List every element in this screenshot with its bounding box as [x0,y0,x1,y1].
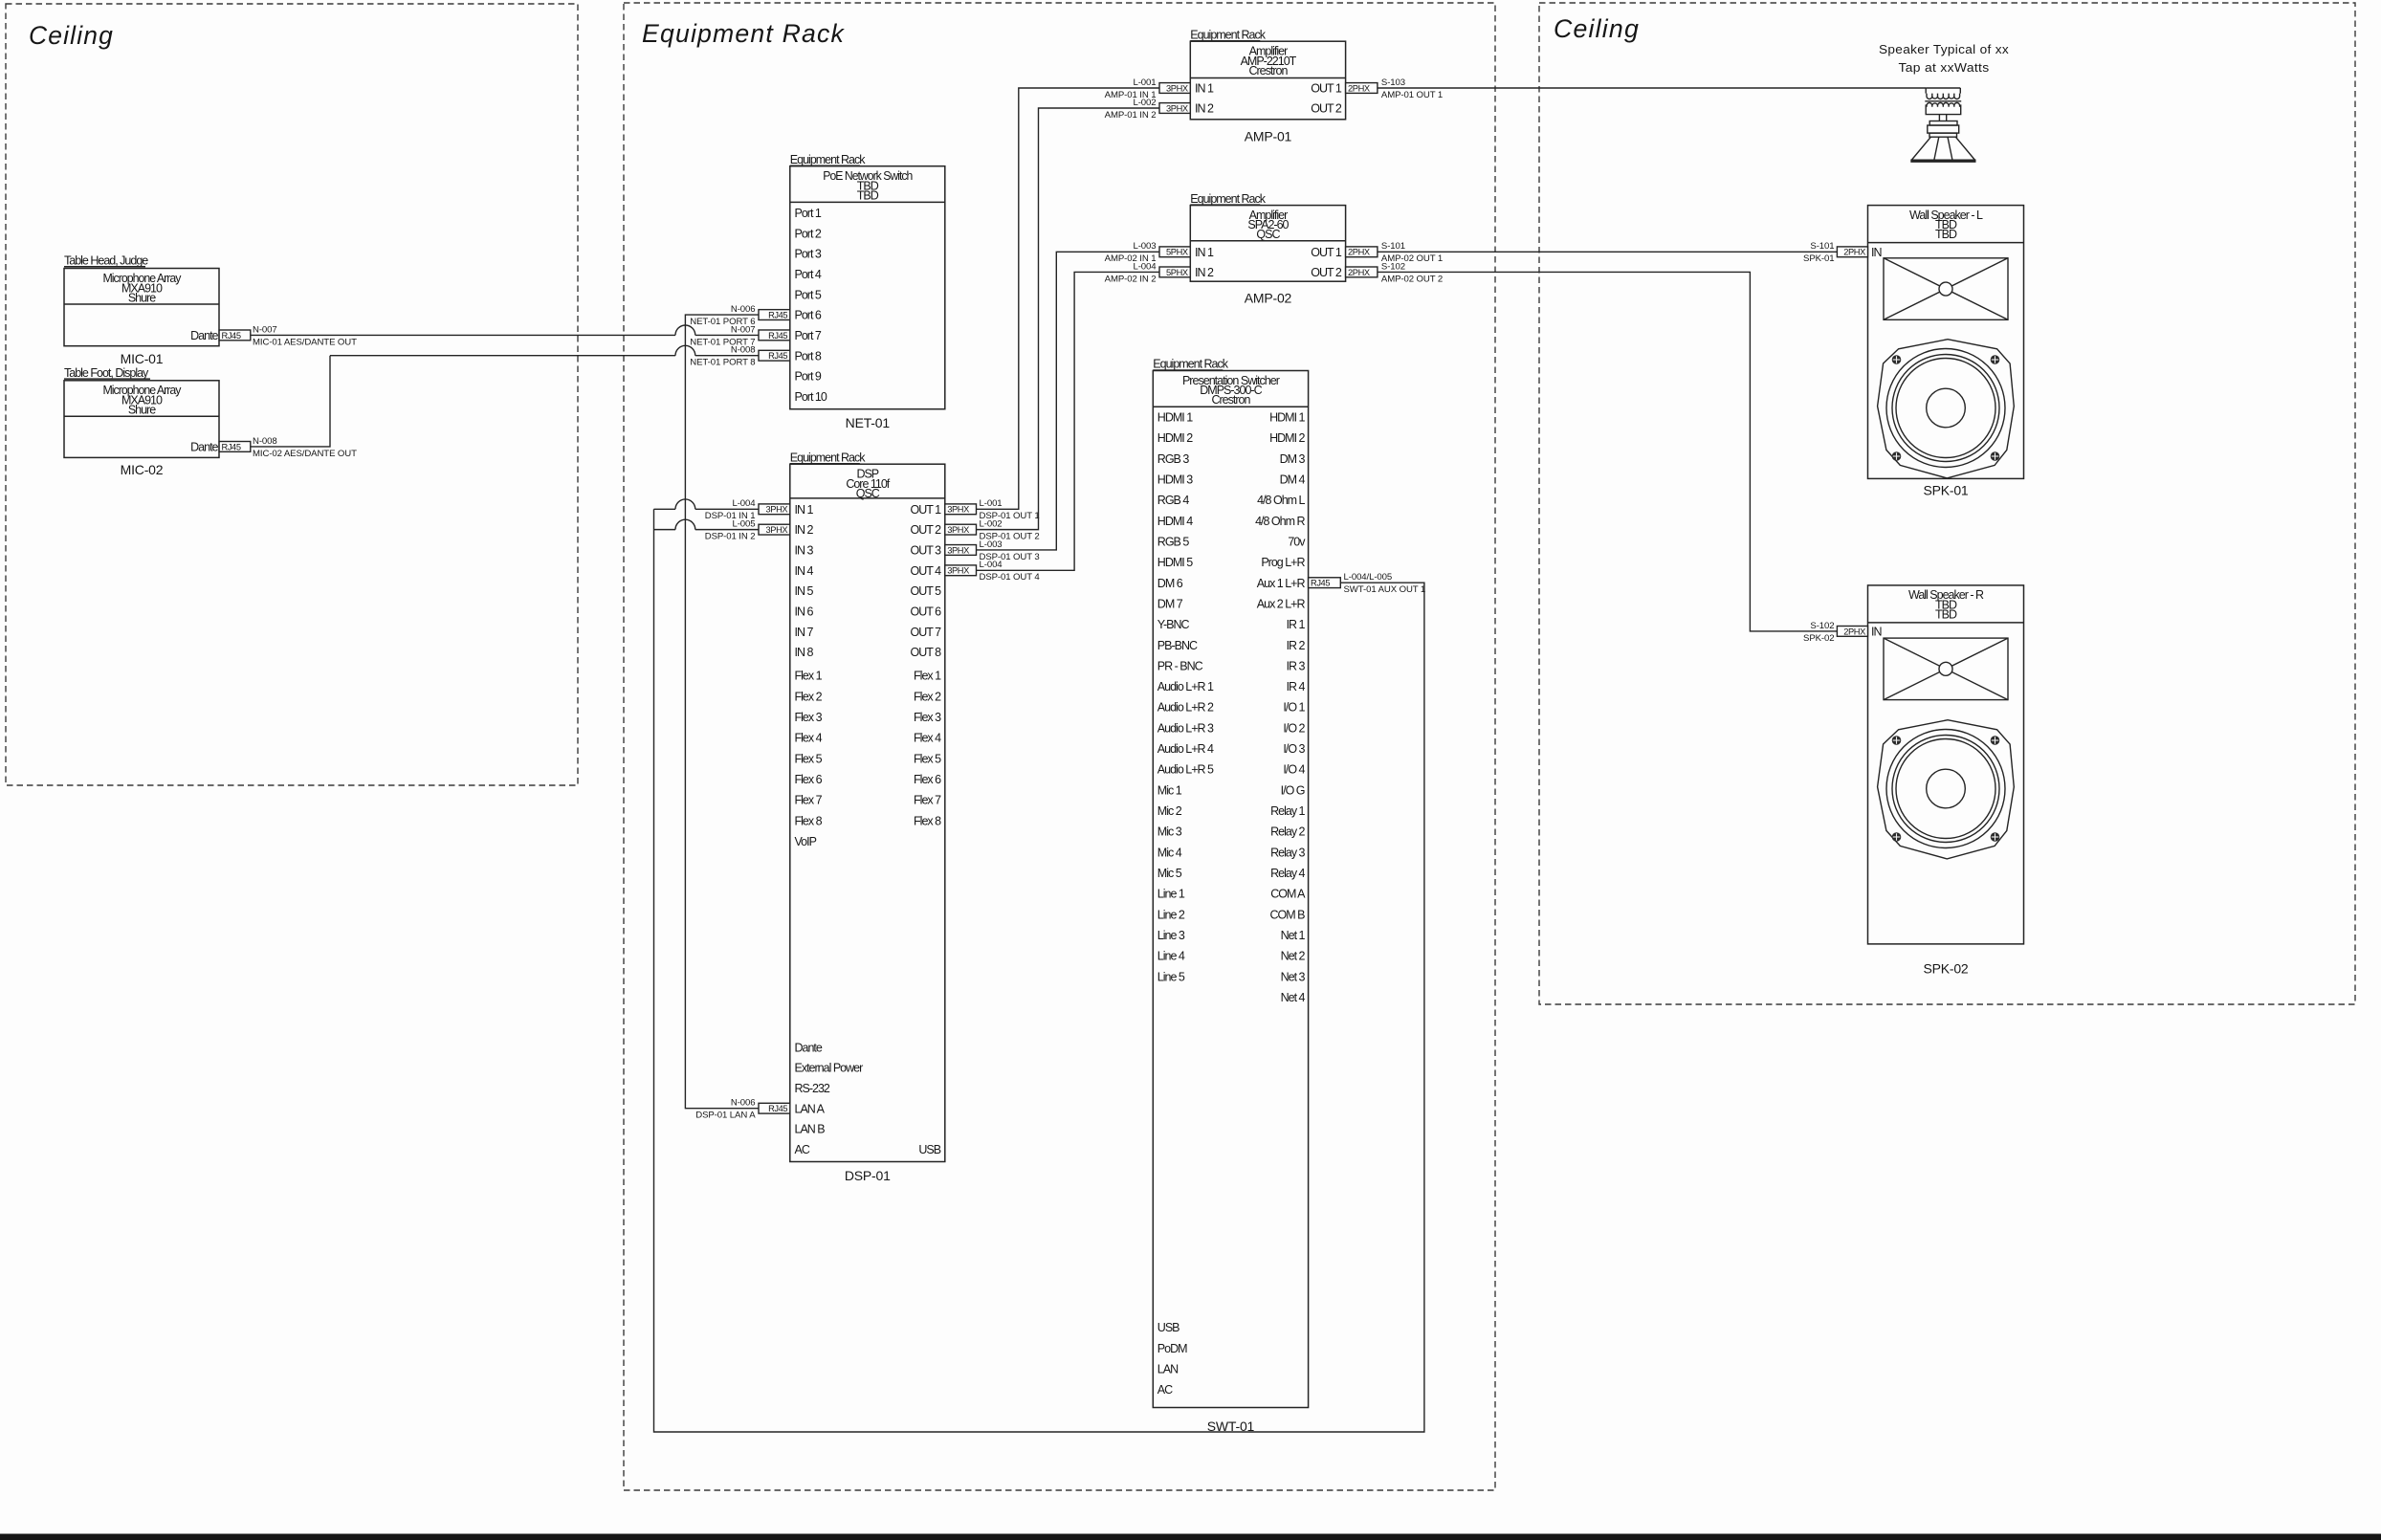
svg-text:Table Head, Judge: Table Head, Judge [64,254,148,268]
svg-text:S-102: S-102 [1810,621,1834,631]
svg-text:Relay 2: Relay 2 [1270,825,1305,839]
svg-text:L-004: L-004 [732,498,756,509]
svg-text:PoDM: PoDM [1157,1342,1187,1355]
svg-text:Flex 1: Flex 1 [914,670,941,683]
svg-text:Audio L+R 1: Audio L+R 1 [1157,680,1214,693]
svg-text:Line 4: Line 4 [1157,950,1185,963]
svg-text:2PHX: 2PHX [1348,83,1370,93]
svg-text:TBD: TBD [1935,228,1957,241]
wire L-003 : DSP-01 OUT 3 to AMP-02 IN 1 [977,252,1160,550]
svg-text:S-102: S-102 [1381,261,1405,272]
svg-text:RS-232: RS-232 [795,1082,830,1095]
svg-text:AMP-02 IN 2: AMP-02 IN 2 [1105,274,1157,284]
svg-text:3PHX: 3PHX [947,505,969,515]
wire L-004 : SWT-01 Aux to DSP-01 IN 1 (left segment) [654,499,760,509]
svg-text:DM 3: DM 3 [1280,452,1306,466]
wire S-101 : AMP-02 OUT 1 to SPK-01 [1378,251,1838,253]
svg-text:Flex 2: Flex 2 [914,690,941,703]
DSP-01 RJ45 connector LAN A [759,1103,790,1113]
svg-text:L-003: L-003 [980,539,1003,550]
svg-text:OUT 7: OUT 7 [911,626,942,639]
svg-text:IN 8: IN 8 [795,646,814,659]
wire N-008 : MIC-02 Dante to NET-01 Port 8 [251,356,330,447]
svg-text:IN: IN [1871,246,1882,259]
svg-text:AC: AC [1157,1383,1173,1397]
svg-text:Flex 5: Flex 5 [914,752,941,765]
svg-text:Mic 5: Mic 5 [1157,867,1182,880]
svg-text:LAN B: LAN B [795,1123,826,1136]
DSP-01 3PHX connector OUT 3 [945,545,977,556]
NET-01 RJ45 connector Port 8 [759,350,790,361]
wire S-103 : AMP-01 OUT 1 to ceiling speaker [1378,87,1926,89]
svg-text:IN: IN [1871,626,1882,639]
wire S-102 : AMP-02 OUT 2 to SPK-02 [1378,272,1838,631]
svg-text:4/8 Ohm R: 4/8 Ohm R [1255,515,1305,528]
zone frame: Equipment Rack [624,3,1495,1490]
svg-text:Flex 6: Flex 6 [914,773,941,786]
svg-text:HDMI 2: HDMI 2 [1269,431,1305,445]
svg-text:Relay 4: Relay 4 [1270,867,1305,880]
svg-text:Flex 3: Flex 3 [914,711,941,724]
SPK-02 2PHX connector IN [1837,627,1867,637]
AMP-02 2PHX connector OUT 2 [1346,267,1378,277]
svg-text:S-103: S-103 [1381,77,1405,88]
svg-text:Flex 5: Flex 5 [795,752,823,765]
svg-text:Flex 6: Flex 6 [795,773,823,786]
svg-text:SPK-01: SPK-01 [1803,253,1834,264]
svg-text:AMP-01: AMP-01 [1245,129,1292,144]
svg-text:Mic 3: Mic 3 [1157,825,1182,839]
svg-text:Shure: Shure [128,403,156,416]
svg-text:IR 1: IR 1 [1287,618,1306,631]
NET-01 RJ45 connector Port 6 [759,310,790,320]
svg-text:IN 2: IN 2 [1195,102,1214,116]
svg-text:70v: 70v [1288,535,1306,548]
svg-text:L-001: L-001 [980,498,1003,509]
svg-text:Net 3: Net 3 [1281,970,1306,983]
DSP-01 3PHX connector OUT 1 [945,504,977,515]
svg-text:USB: USB [1157,1321,1179,1334]
svg-text:Shure: Shure [128,291,156,304]
svg-text:MIC-01: MIC-01 [121,351,164,366]
svg-text:Table Foot, Display: Table Foot, Display [64,366,149,380]
svg-text:Prog L+R: Prog L+R [1261,556,1305,569]
svg-text:Flex 2: Flex 2 [795,690,823,703]
svg-text:3PHX: 3PHX [947,525,969,535]
svg-text:MIC-02: MIC-02 [121,462,164,477]
svg-text:IN 2: IN 2 [1195,266,1214,279]
zone frame: Ceiling (right) [1539,3,2355,1004]
wall speaker SPK-02 box [1868,585,2024,944]
DSP-01 3PHX connector IN 1 [759,504,790,515]
AMP-01 3PHX connector IN 1 [1159,83,1190,94]
svg-text:Net 1: Net 1 [1281,929,1306,942]
svg-text:Flex 4: Flex 4 [914,732,941,745]
svg-text:Flex 1: Flex 1 [795,670,823,683]
svg-text:HDMI 5: HDMI 5 [1157,556,1193,569]
SPK-01 2PHX connector IN [1837,247,1867,257]
svg-text:Mic 2: Mic 2 [1157,804,1182,818]
svg-text:Net 4: Net 4 [1281,991,1306,1004]
svg-text:3PHX: 3PHX [1166,83,1188,93]
SPK-02 woofer [1878,720,2015,859]
svg-text:2PHX: 2PHX [1348,268,1370,277]
svg-text:Port 4: Port 4 [795,268,822,281]
svg-text:Audio L+R 3: Audio L+R 3 [1157,721,1214,735]
svg-text:QSC: QSC [856,487,880,500]
svg-text:RJ45: RJ45 [222,331,241,341]
svg-text:Flex 7: Flex 7 [795,794,823,807]
wall speaker SPK-01 box [1868,206,2024,479]
DSP Core 110f DSP-01 box [790,464,945,1161]
svg-text:HDMI 1: HDMI 1 [1269,411,1305,425]
svg-text:Relay 1: Relay 1 [1270,804,1305,818]
svg-text:IN 1: IN 1 [1195,246,1214,259]
svg-text:N-006: N-006 [731,304,756,315]
svg-text:RJ45: RJ45 [1311,579,1330,588]
svg-text:2PHX: 2PHX [1348,248,1370,257]
svg-text:L-002: L-002 [1133,98,1156,108]
amplifier AMP-01 box [1190,41,1345,120]
svg-text:RGB 4: RGB 4 [1157,494,1190,507]
wire N-007 : MIC-01 Dante to NET-01 Port 7 [251,325,759,335]
svg-text:Mic 1: Mic 1 [1157,783,1182,797]
svg-text:I/O 1: I/O 1 [1283,701,1305,715]
svg-text:Dante: Dante [190,441,218,454]
SPK-01 tweeter (horn with X) [1884,258,2008,320]
svg-text:IR 2: IR 2 [1287,639,1306,652]
svg-text:HDMI 4: HDMI 4 [1157,515,1193,528]
svg-text:HDMI 1: HDMI 1 [1157,411,1193,425]
svg-text:NET-01 PORT 8: NET-01 PORT 8 [690,358,755,368]
wire L-001 : DSP-01 OUT 1 to AMP-01 IN 1 [977,88,1160,509]
svg-text:OUT 6: OUT 6 [911,605,942,619]
PoE network switch NET-01 box [790,166,945,409]
svg-text:I/O 4: I/O 4 [1283,763,1305,777]
svg-text:Line 5: Line 5 [1157,970,1185,983]
svg-text:Port 2: Port 2 [795,227,822,240]
svg-text:Line 1: Line 1 [1157,888,1185,901]
wire L-004/L-005 : SWT-01 Aux Out 1 loop to DSP-01 IN 1/2 [654,509,1424,1432]
svg-text:OUT 2: OUT 2 [911,523,942,537]
svg-text:IN 2: IN 2 [795,523,814,537]
svg-text:3PHX: 3PHX [766,505,788,515]
svg-text:Flex 3: Flex 3 [795,711,823,724]
svg-text:Dante: Dante [190,329,218,342]
svg-text:L-002: L-002 [980,519,1003,530]
svg-text:DM 6: DM 6 [1157,577,1183,590]
svg-text:IN 7: IN 7 [795,626,814,639]
svg-text:5PHX: 5PHX [1166,248,1188,257]
SWT-01 RJ45 connector Aux 1 L+R [1309,578,1341,588]
svg-text:IN 1: IN 1 [795,503,814,517]
svg-text:AMP-01 IN 2: AMP-01 IN 2 [1105,110,1157,121]
svg-text:L-003: L-003 [1133,241,1156,252]
svg-text:Speaker Typical of xx: Speaker Typical of xx [1879,43,2009,56]
svg-text:Audio L+R 4: Audio L+R 4 [1157,742,1214,756]
svg-text:3PHX: 3PHX [947,566,969,576]
svg-text:Equipment Rack: Equipment Rack [1153,358,1228,371]
svg-text:Port 8: Port 8 [795,349,822,363]
ceiling speaker symbol with transformer [1926,88,1960,94]
AMP-02 2PHX connector OUT 1 [1346,247,1378,257]
svg-text:I/O 3: I/O 3 [1283,742,1305,756]
svg-text:AMP-02: AMP-02 [1245,291,1292,306]
svg-text:IR 4: IR 4 [1287,680,1306,693]
svg-text:Port 1: Port 1 [795,207,822,220]
svg-text:Crestron: Crestron [1211,393,1250,407]
svg-text:Aux 2 L+R: Aux 2 L+R [1257,597,1306,610]
svg-text:N-006: N-006 [731,1098,756,1109]
svg-text:AMP-02 OUT 2: AMP-02 OUT 2 [1381,274,1443,284]
svg-text:SPK-02: SPK-02 [1803,633,1834,644]
svg-text:DM 4: DM 4 [1280,473,1306,486]
svg-text:Port 7: Port 7 [795,329,822,342]
bottom title-block bar [0,1534,2381,1540]
svg-text:OUT 1: OUT 1 [1311,246,1342,259]
svg-text:Flex 7: Flex 7 [914,794,941,807]
svg-text:Audio L+R 5: Audio L+R 5 [1157,763,1214,777]
DSP-01 3PHX connector IN 2 [759,524,790,535]
svg-text:Tap at xxWatts: Tap at xxWatts [1899,61,1990,75]
svg-text:DSP-01 IN 2: DSP-01 IN 2 [705,532,756,542]
svg-text:RJ45: RJ45 [768,331,787,341]
microphone array MIC-01 box [64,269,219,346]
svg-text:HDMI 3: HDMI 3 [1157,473,1193,486]
svg-text:RJ45: RJ45 [222,442,241,451]
svg-text:Ceiling: Ceiling [29,21,114,50]
svg-text:Audio L+R 2: Audio L+R 2 [1157,701,1214,715]
svg-text:L-004: L-004 [1133,261,1157,272]
svg-text:OUT 3: OUT 3 [911,544,942,558]
svg-text:IN 4: IN 4 [795,564,814,578]
svg-text:SPK-01: SPK-01 [1923,482,1968,497]
svg-text:N-008: N-008 [731,345,756,356]
svg-text:SWT-01 AUX OUT 1: SWT-01 AUX OUT 1 [1344,584,1426,595]
svg-text:TBD: TBD [857,188,879,202]
svg-text:OUT 5: OUT 5 [911,584,942,598]
svg-text:Dante: Dante [795,1041,823,1054]
svg-text:OUT 8: OUT 8 [911,646,942,659]
svg-text:Port 3: Port 3 [795,248,822,261]
svg-text:NET-01: NET-01 [846,415,891,430]
svg-text:Relay 3: Relay 3 [1270,846,1305,859]
svg-text:2PHX: 2PHX [1843,248,1865,257]
svg-text:COM A: COM A [1270,888,1306,901]
svg-text:5PHX: 5PHX [1166,268,1188,277]
svg-text:Y-BNC: Y-BNC [1157,618,1190,631]
svg-text:S-101: S-101 [1381,241,1405,252]
svg-text:S-101: S-101 [1810,241,1834,252]
svg-text:RJ45: RJ45 [768,351,787,361]
svg-text:Equipment Rack: Equipment Rack [790,153,866,166]
svg-text:Mic 4: Mic 4 [1157,846,1182,859]
svg-text:DSP-01: DSP-01 [845,1168,891,1183]
svg-text:NET-01 PORT 6: NET-01 PORT 6 [690,317,755,327]
svg-text:N-007: N-007 [253,324,277,335]
wire N-006 : NET-01 Port 6 to DSP-01 LAN A [685,315,759,1109]
DSP-01 3PHX connector OUT 2 [945,524,977,535]
svg-text:I/O G: I/O G [1281,783,1305,797]
svg-text:RJ45: RJ45 [768,1104,787,1113]
svg-text:Flex 8: Flex 8 [795,814,823,827]
svg-text:Port 6: Port 6 [795,309,822,322]
svg-text:Net 2: Net 2 [1281,950,1306,963]
svg-text:Equipment Rack: Equipment Rack [1190,28,1266,41]
svg-text:Line 3: Line 3 [1157,929,1185,942]
DSP-01 3PHX connector OUT 4 [945,565,977,576]
wire L-002 : DSP-01 OUT 2 to AMP-01 IN 2 [977,108,1160,530]
AMP-02 5PHX connector IN 1 [1159,247,1190,257]
svg-text:Crestron: Crestron [1248,64,1288,77]
MIC-02 RJ45 connector [219,442,251,452]
SPK-02 tweeter (horn with X) [1884,638,2008,700]
svg-text:IN 6: IN 6 [795,605,814,619]
svg-text:I/O 2: I/O 2 [1283,721,1305,735]
svg-text:OUT 2: OUT 2 [1311,266,1342,279]
svg-text:OUT 1: OUT 1 [1311,82,1342,96]
svg-text:USB: USB [918,1143,940,1156]
svg-text:4/8 Ohm L: 4/8 Ohm L [1257,494,1305,507]
SPK-01 woofer [1878,340,2015,478]
svg-text:IN 5: IN 5 [795,584,814,598]
svg-text:MIC-02 AES/DANTE OUT: MIC-02 AES/DANTE OUT [253,449,357,459]
svg-text:Ceiling: Ceiling [1554,14,1640,43]
svg-text:2PHX: 2PHX [1843,627,1865,636]
svg-text:L-004: L-004 [980,560,1003,570]
microphone array MIC-02 box [64,381,219,458]
svg-text:Port 9: Port 9 [795,370,822,384]
svg-text:L-001: L-001 [1133,77,1156,88]
svg-text:PR - BNC: PR - BNC [1157,659,1203,672]
svg-text:IN 3: IN 3 [795,544,814,558]
svg-text:RGB 5: RGB 5 [1157,535,1190,548]
svg-text:OUT 2: OUT 2 [1311,102,1342,116]
svg-text:SPK-02: SPK-02 [1923,961,1968,977]
svg-text:L-005: L-005 [732,519,755,530]
MIC-01 RJ45 connector [219,330,251,341]
svg-text:PB-BNC: PB-BNC [1157,639,1198,652]
svg-text:IN 1: IN 1 [1195,82,1214,96]
svg-text:L-004/L-005: L-004/L-005 [1344,572,1393,583]
svg-text:External Power: External Power [795,1062,864,1075]
svg-text:LAN A: LAN A [795,1102,826,1115]
svg-text:Equipment Rack: Equipment Rack [790,451,866,464]
svg-text:QSC: QSC [1256,228,1280,241]
AMP-01 3PHX connector IN 2 [1159,103,1190,114]
svg-text:OUT 1: OUT 1 [911,503,942,517]
wire L-005 : SWT-01 Aux to DSP-01 IN 2 (left segment) [654,519,760,529]
svg-text:3PHX: 3PHX [1166,103,1188,113]
svg-text:Flex 4: Flex 4 [795,732,823,745]
svg-text:DSP-01 LAN A: DSP-01 LAN A [695,1111,756,1121]
svg-text:MIC-01 AES/DANTE OUT: MIC-01 AES/DANTE OUT [253,337,357,347]
wire L-004 : DSP-01 OUT 4 to AMP-02 IN 2 [977,272,1160,570]
svg-text:Equipment Rack: Equipment Rack [1190,192,1266,206]
svg-text:3PHX: 3PHX [766,525,788,535]
svg-text:AMP-01 OUT 1: AMP-01 OUT 1 [1381,90,1443,100]
svg-text:IR 3: IR 3 [1287,659,1306,672]
svg-text:OUT 4: OUT 4 [911,564,942,578]
svg-text:Equipment Rack: Equipment Rack [642,19,845,48]
svg-text:VoIP: VoIP [795,835,817,848]
svg-text:RJ45: RJ45 [768,310,787,319]
svg-text:AC: AC [795,1143,810,1156]
svg-text:LAN: LAN [1157,1363,1179,1376]
svg-text:Line 2: Line 2 [1157,908,1185,921]
amplifier AMP-02 box [1190,206,1345,282]
svg-text:TBD: TBD [1935,607,1957,621]
svg-text:Port 10: Port 10 [795,390,827,404]
svg-text:HDMI 2: HDMI 2 [1157,431,1193,445]
svg-text:DM 7: DM 7 [1157,597,1183,610]
NET-01 RJ45 connector Port 7 [759,330,790,341]
zone frame: Ceiling (left) [6,4,578,785]
AMP-02 5PHX connector IN 2 [1159,267,1190,277]
svg-text:3PHX: 3PHX [947,545,969,555]
presentation switcher SWT-01 box [1153,371,1308,1408]
svg-text:Port 5: Port 5 [795,288,822,301]
svg-text:RGB 3: RGB 3 [1157,452,1190,466]
svg-text:COM B: COM B [1270,908,1306,921]
svg-text:N-008: N-008 [253,436,277,447]
svg-text:Flex 8: Flex 8 [914,814,941,827]
svg-text:Aux 1 L+R: Aux 1 L+R [1257,577,1306,590]
svg-text:DSP-01 OUT 4: DSP-01 OUT 4 [980,572,1041,583]
AMP-01 2PHX connector OUT 1 [1346,83,1378,94]
